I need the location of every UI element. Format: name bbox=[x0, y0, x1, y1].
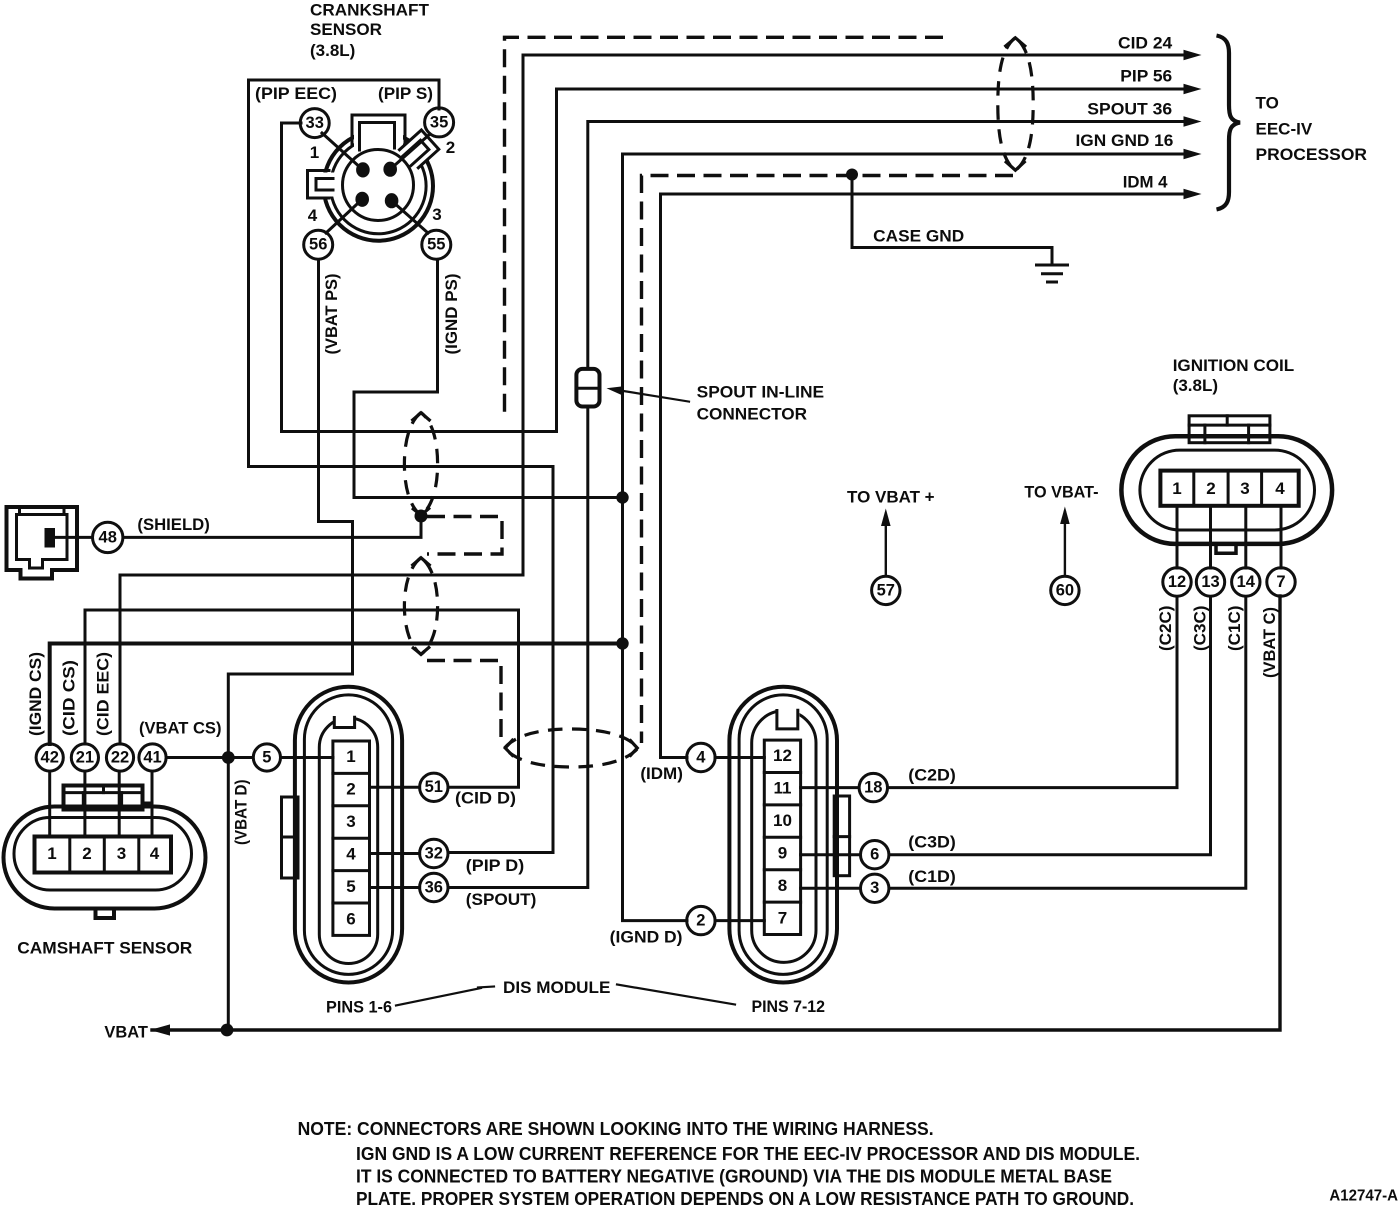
svg-text:(IGND D): (IGND D) bbox=[610, 928, 683, 947]
svg-text:4: 4 bbox=[696, 748, 706, 766]
TO VBAT+ arrow bbox=[885, 514, 887, 576]
svg-text:57: 57 bbox=[877, 581, 895, 599]
cam inner oval bbox=[14, 818, 192, 891]
svg-text:6: 6 bbox=[870, 846, 879, 864]
svg-text:60: 60 bbox=[1056, 581, 1074, 599]
svg-text:13: 13 bbox=[1201, 573, 1219, 591]
svg-text:TO VBAT +: TO VBAT + bbox=[847, 488, 935, 507]
circle 55 bbox=[422, 230, 451, 259]
wire SPOUT net: EEC SPOUT 36 down to DIS circle 36 bbox=[588, 122, 1184, 370]
wire pin 11 to circle 18 bbox=[801, 786, 859, 789]
circle 2 bbox=[687, 906, 715, 934]
ignition coil inner oval bbox=[1140, 450, 1315, 530]
svg-text:TO: TO bbox=[1256, 93, 1279, 112]
svg-text:(VBAT D): (VBAT D) bbox=[232, 780, 251, 846]
svg-text:PINS 1-6: PINS 1-6 bbox=[326, 998, 392, 1017]
svg-text:6: 6 bbox=[346, 910, 355, 929]
wire pin2 to circle 51 bbox=[370, 786, 420, 789]
svg-text:A12747-A: A12747-A bbox=[1329, 1188, 1398, 1205]
circle 3 bbox=[861, 874, 889, 902]
shield dashed link crank-shield to cam-shield bbox=[427, 517, 502, 555]
svg-text:(VBAT PS): (VBAT PS) bbox=[322, 274, 341, 355]
svg-text:(3.8L): (3.8L) bbox=[1173, 376, 1218, 395]
cam pin row bbox=[35, 837, 172, 873]
svg-text:14: 14 bbox=[1237, 573, 1256, 591]
svg-text:IGN GND 16: IGN GND 16 bbox=[1076, 131, 1174, 150]
circle 42 bbox=[36, 744, 63, 771]
svg-text:35: 35 bbox=[430, 113, 448, 131]
wire IDM net: EEC IDM 4 down to DIS circle 4 bbox=[661, 194, 1185, 758]
circle 33 bbox=[300, 109, 329, 138]
svg-text:CASE GND: CASE GND bbox=[873, 227, 964, 246]
arrowhead SPOUT 36 bbox=[1184, 116, 1202, 127]
svg-text:CONNECTOR: CONNECTOR bbox=[697, 405, 808, 424]
svg-text:32: 32 bbox=[425, 844, 443, 862]
circle 12 bbox=[1163, 568, 1191, 596]
svg-text:56: 56 bbox=[309, 236, 327, 254]
svg-text:2: 2 bbox=[82, 844, 91, 863]
svg-text:IGN GND IS A LOW CURRENT REFER: IGN GND IS A LOW CURRENT REFERENCE FOR T… bbox=[356, 1144, 1140, 1164]
wire pin 9 to circle 6 bbox=[801, 853, 861, 856]
circle 41 bbox=[139, 744, 166, 771]
shield ellipse around DIS vertical bundle (horizontal ellipse) bbox=[505, 729, 639, 767]
crank inner circle bbox=[343, 150, 414, 221]
svg-text:(3.8L): (3.8L) bbox=[310, 41, 355, 60]
circle 48 bbox=[93, 522, 123, 552]
svg-text:PIP 56: PIP 56 bbox=[1120, 66, 1172, 85]
circle 13 bbox=[1196, 568, 1224, 596]
circle 4 bbox=[687, 743, 715, 771]
shield junction dot at crank bundle bbox=[415, 510, 428, 523]
svg-text:3: 3 bbox=[117, 844, 126, 863]
wire pin to circle 48 bbox=[55, 536, 93, 539]
svg-text:10: 10 bbox=[773, 811, 792, 830]
svg-text:11: 11 bbox=[774, 779, 792, 798]
circle 51 bbox=[420, 773, 448, 801]
wire VBAT rail at bottom bbox=[152, 596, 1280, 1030]
crankshaft sensor connector body bbox=[324, 131, 433, 240]
wire pin5 to circle 36 bbox=[370, 886, 420, 889]
svg-text:1: 1 bbox=[47, 844, 56, 863]
svg-text:2: 2 bbox=[1206, 479, 1215, 498]
svg-text:18: 18 bbox=[864, 779, 882, 797]
crank pointer lines to pins bbox=[322, 133, 363, 170]
svg-text:1: 1 bbox=[310, 143, 319, 162]
svg-text:CAMSHAFT SENSOR: CAMSHAFT SENSOR bbox=[17, 939, 192, 958]
svg-text:(IDM): (IDM) bbox=[640, 764, 683, 783]
svg-text:CRANKSHAFT: CRANKSHAFT bbox=[310, 1, 430, 20]
shield dashed wire from EEC bundle bottom to corner x641 bbox=[642, 176, 1014, 744]
svg-text:1: 1 bbox=[1172, 479, 1181, 498]
DIS pins 7-12 connector shells bbox=[729, 687, 837, 983]
arrowhead CID 24 bbox=[1184, 50, 1202, 61]
arrowhead IGN GND 16 bbox=[1184, 149, 1202, 160]
svg-text:DIS MODULE: DIS MODULE bbox=[503, 978, 610, 997]
shield ellipse around cam horizontal bundle bbox=[404, 558, 437, 655]
svg-text:9: 9 bbox=[778, 844, 787, 863]
DIS pins 1-6 connector shells bbox=[295, 687, 402, 983]
wire IGND CS branch: dot to cam circle 42 bbox=[616, 637, 628, 649]
circle 6 bbox=[861, 841, 889, 869]
SECTION: eec bbox=[1076, 33, 1368, 209]
SECTION: cam bbox=[4, 507, 281, 958]
svg-text:IDM 4: IDM 4 bbox=[1123, 172, 1168, 191]
svg-text:2: 2 bbox=[346, 780, 355, 799]
svg-text:4: 4 bbox=[346, 845, 356, 864]
wire PIP EEC net: crank pin1 circle 33 to EEC PIP 56 bbox=[282, 89, 1185, 432]
shield ellipse around crank horizontal bundle bbox=[404, 413, 437, 516]
ignition coil pin row bbox=[1160, 471, 1298, 506]
svg-text:SENSOR: SENSOR bbox=[310, 20, 382, 39]
svg-text:5: 5 bbox=[346, 877, 355, 896]
circle 21 bbox=[71, 744, 98, 771]
shield connector pin bbox=[45, 528, 56, 548]
svg-text:51: 51 bbox=[425, 778, 443, 796]
SECTION: crank bbox=[255, 1, 461, 355]
crank top tab bbox=[354, 116, 403, 148]
svg-text:IGNITION COIL: IGNITION COIL bbox=[1173, 356, 1295, 375]
ignition coil outer oval bbox=[1121, 436, 1332, 544]
svg-text:(SPOUT): (SPOUT) bbox=[466, 890, 537, 909]
svg-text:22: 22 bbox=[111, 748, 129, 766]
svg-text:12: 12 bbox=[1168, 573, 1186, 591]
wire C1D net: circle 3 to coil circle 14 bbox=[889, 597, 1246, 889]
svg-text:5: 5 bbox=[262, 748, 271, 766]
svg-text:4: 4 bbox=[1275, 479, 1285, 498]
crank pin dots bbox=[356, 162, 370, 177]
wire C2D net: circle 18 to coil circle 12 bbox=[888, 597, 1177, 788]
wire IGND PS: crank circle 55 down to IGN GND junction bbox=[354, 260, 616, 498]
wire C3D net: circle 6 to coil circle 13 bbox=[889, 597, 1211, 855]
wire pin 8 to circle 3 bbox=[801, 887, 861, 890]
SECTION: dis bbox=[282, 369, 956, 1017]
circle 7 bbox=[1267, 568, 1295, 596]
svg-text:(CID CS): (CID CS) bbox=[60, 660, 79, 736]
circle 18 bbox=[859, 773, 887, 801]
wire VBAT PS: crank circle 56 down with jog bbox=[228, 260, 352, 1030]
DIS pins 7-12 right tab bbox=[834, 796, 849, 876]
circle 35 bbox=[425, 108, 454, 137]
DIS pins 1-6 pin column bbox=[333, 741, 370, 935]
wire PIP S net: crank circle 35 to DIS pin4 circle 32 bbox=[249, 80, 554, 853]
circle 36 bbox=[420, 873, 448, 901]
wire coil pin leads down to circles 12 13 14 7 bbox=[1176, 506, 1179, 568]
svg-text:EEC-IV: EEC-IV bbox=[1256, 119, 1313, 138]
SECTION: misc bbox=[298, 483, 1399, 1210]
SECTION: shields bbox=[123, 37, 1033, 767]
svg-text:PROCESSOR: PROCESSOR bbox=[1256, 145, 1368, 164]
svg-text:3: 3 bbox=[870, 879, 879, 897]
circle 5 bbox=[253, 744, 280, 771]
circle 32 bbox=[420, 839, 448, 867]
svg-text:48: 48 bbox=[99, 528, 117, 546]
svg-text:(PIP D): (PIP D) bbox=[466, 856, 524, 875]
camshaft sensor connector outer oval bbox=[4, 807, 206, 909]
svg-text:42: 42 bbox=[41, 748, 59, 766]
shield dashed wire from EEC bundle to crank bundle shield bbox=[505, 37, 944, 412]
shield wire connector symbol bbox=[7, 507, 78, 579]
svg-text:(PIP S): (PIP S) bbox=[378, 84, 433, 103]
crank left notch bbox=[309, 173, 337, 197]
wire circle 2 to pin 7 bbox=[715, 919, 764, 922]
svg-text:(C1D): (C1D) bbox=[908, 867, 956, 886]
VBAT arrowhead bbox=[150, 1024, 170, 1035]
cam top tower bbox=[64, 786, 143, 810]
svg-text:4: 4 bbox=[308, 206, 318, 225]
wire circle 4 to pin 12 bbox=[715, 756, 764, 759]
wire pin4 to circle 32 bbox=[370, 852, 420, 855]
svg-text:4: 4 bbox=[150, 844, 160, 863]
SPOUT in-line leader arrow bbox=[619, 390, 689, 401]
svg-text:3: 3 bbox=[432, 205, 441, 224]
svg-text:PINS 7-12: PINS 7-12 bbox=[752, 997, 826, 1016]
svg-text:(C1C): (C1C) bbox=[1225, 606, 1244, 652]
circle 57 bbox=[872, 576, 900, 604]
shield ellipse around EEC wires bbox=[998, 38, 1033, 171]
ignition coil top tab bbox=[1189, 416, 1270, 443]
SECTION: wires bbox=[50, 55, 1281, 1042]
svg-text:TO VBAT-: TO VBAT- bbox=[1024, 483, 1098, 502]
svg-text:55: 55 bbox=[427, 236, 445, 254]
svg-text:3: 3 bbox=[346, 812, 355, 831]
svg-text:36: 36 bbox=[425, 878, 443, 896]
SPOUT in-line connector bbox=[576, 369, 599, 407]
svg-text:2: 2 bbox=[446, 138, 455, 157]
cam pin wires up to circles bbox=[48, 772, 51, 837]
svg-text:33: 33 bbox=[306, 114, 324, 132]
svg-text:3: 3 bbox=[1240, 479, 1249, 498]
circle 14 bbox=[1232, 568, 1260, 596]
svg-text:(IGND CS): (IGND CS) bbox=[26, 652, 45, 736]
arrowhead IDM 4 bbox=[1184, 189, 1202, 200]
arrowhead PIP 56 bbox=[1184, 84, 1202, 95]
svg-text:NOTE: CONNECTORS ARE SHOWN LOO: NOTE: CONNECTORS ARE SHOWN LOOKING INTO … bbox=[298, 1119, 934, 1139]
svg-text:CID 24: CID 24 bbox=[1118, 33, 1173, 52]
svg-text:(CID D): (CID D) bbox=[455, 789, 516, 808]
ground symbol bbox=[1037, 265, 1068, 282]
DIS pins 1-6 left tab bbox=[282, 797, 299, 878]
wire CASE GND: from shield dashed dot down to ground bbox=[846, 169, 858, 181]
svg-text:(VBAT C): (VBAT C) bbox=[1260, 607, 1279, 678]
svg-text:41: 41 bbox=[143, 748, 161, 766]
wire VBAT CS row: circle 41 to dot to circle 5 to DIS pin 1 bbox=[167, 756, 254, 759]
svg-text:(C3D): (C3D) bbox=[908, 833, 956, 852]
brace to EEC-IV bbox=[1217, 36, 1241, 210]
svg-text:12: 12 bbox=[773, 746, 792, 765]
wire CID net: EEC CID 24 down to cam circle 22 bbox=[120, 55, 1184, 744]
svg-text:8: 8 bbox=[778, 876, 787, 895]
svg-text:VBAT: VBAT bbox=[104, 1023, 148, 1042]
svg-text:(CID EEC): (CID EEC) bbox=[94, 652, 113, 736]
svg-text:1: 1 bbox=[346, 747, 355, 766]
svg-text:SPOUT IN-LINE: SPOUT IN-LINE bbox=[697, 383, 825, 402]
svg-text:7: 7 bbox=[778, 909, 787, 928]
circle 60 bbox=[1051, 576, 1079, 604]
svg-text:SPOUT 36: SPOUT 36 bbox=[1087, 99, 1172, 118]
svg-text:(PIP EEC): (PIP EEC) bbox=[255, 84, 337, 103]
svg-text:(SHIELD): (SHIELD) bbox=[137, 515, 209, 534]
svg-text:2: 2 bbox=[696, 912, 705, 930]
svg-text:PLATE. PROPER SYSTEM OPERATION: PLATE. PROPER SYSTEM OPERATION DEPENDS O… bbox=[356, 1189, 1134, 1209]
DIS pins 7-12 pin column bbox=[764, 740, 800, 934]
shield dashed link cam-shield to DIS bundle shield bbox=[427, 661, 501, 744]
circle 56 bbox=[304, 230, 333, 259]
TO VBAT- arrow bbox=[1064, 512, 1066, 576]
svg-text:IT IS CONNECTED TO BATTERY NEG: IT IS CONNECTED TO BATTERY NEGATIVE (GRO… bbox=[356, 1167, 1112, 1187]
svg-text:(C2D): (C2D) bbox=[908, 766, 956, 785]
svg-text:(VBAT CS): (VBAT CS) bbox=[139, 719, 222, 738]
svg-text:21: 21 bbox=[76, 748, 94, 766]
ignition coil bottom tab bbox=[1216, 544, 1236, 553]
svg-text:7: 7 bbox=[1276, 573, 1285, 591]
svg-text:(IGND PS): (IGND PS) bbox=[442, 274, 461, 355]
wire CID CS net: cam circle 21 to DIS circle 51 bbox=[85, 610, 519, 787]
svg-text:(C2C): (C2C) bbox=[1156, 606, 1175, 652]
SECTION: coil bbox=[1121, 356, 1332, 678]
wire SHIELD: connector 48 to shield dot bbox=[123, 522, 421, 537]
crank right tab bbox=[396, 130, 438, 172]
wire IGN GND net: EEC IGN GND 16 down to DIS circle 2 bbox=[623, 154, 1185, 921]
wire IGND PS branch junction dot bbox=[616, 491, 628, 503]
shield ellipse tip chevrons bbox=[412, 38, 1027, 757]
svg-text:(C3C): (C3C) bbox=[1191, 606, 1210, 652]
circle 22 bbox=[106, 744, 133, 771]
cam bottom tab bbox=[96, 910, 115, 919]
